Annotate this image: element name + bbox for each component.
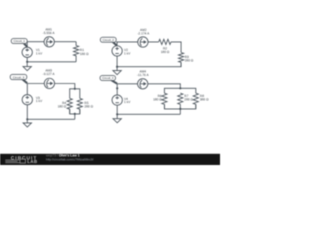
- wire c3 top rail: [27, 84, 75, 89]
- svg-text:180 Ω: 180 Ω: [161, 50, 170, 54]
- voltage source V3: [22, 95, 43, 105]
- svg-text:180 Ω: 180 Ω: [58, 105, 67, 109]
- junction c3 bottom mid node: [74, 113, 76, 115]
- wire c2 gnd stem: [116, 67, 118, 71]
- wire c1 V1 top lead: [26, 42, 28, 48]
- wire c3 V3 bottom lead: [26, 105, 28, 120]
- svg-text:180 Ω: 180 Ω: [153, 98, 162, 102]
- junction c4 top mid node: [179, 87, 181, 89]
- svg-text:Circuit_4: Circuit_4: [102, 76, 114, 80]
- wire c2 top rail right: [171, 42, 181, 53]
- wire c3 return: [27, 118, 75, 120]
- wire c3 V3 top lead: [26, 84, 28, 95]
- svg-text:Circuit_2: Circuit_2: [102, 38, 114, 42]
- svg-text:380 Ω: 380 Ω: [200, 98, 209, 102]
- resistor R5: [77, 98, 93, 114]
- resistor R6: [153, 93, 167, 109]
- ground (c4): [113, 119, 121, 123]
- resistor R2: [159, 39, 171, 54]
- junction c4 bottom mid node: [179, 108, 181, 110]
- ground (c1): [23, 67, 31, 71]
- junction c4 lead joint: [116, 87, 118, 89]
- svg-text:-9.127 A: -9.127 A: [43, 72, 56, 76]
- junction c3 bottom node: [26, 118, 28, 120]
- wire c1 bottom rail: [27, 61, 76, 63]
- ammeter AM3: [43, 69, 56, 89]
- junction c2 bottom node: [116, 66, 118, 68]
- resistor R3: [179, 53, 194, 67]
- wire c4 return: [117, 113, 180, 115]
- net flag Circuit_2: [100, 37, 117, 46]
- svg-text:-11.76 A: -11.76 A: [137, 73, 150, 77]
- wire c4 V4 bottom lead: [116, 105, 118, 114]
- net flag Circuit_1: [11, 39, 27, 48]
- ammeter AM2: [137, 28, 150, 47]
- ground (c3): [23, 123, 31, 127]
- svg-text:1 kV: 1 kV: [36, 99, 43, 103]
- wire c2 top rail left: [116, 41, 158, 43]
- resistor R8: [193, 93, 209, 109]
- wire c2 V2 top lead: [116, 42, 118, 46]
- wire c4 bottom branch rail: [164, 104, 195, 109]
- wire c2 bottom rail: [117, 62, 181, 66]
- svg-text:1 kV: 1 kV: [124, 100, 131, 104]
- wire c3 gnd stem: [26, 119, 28, 123]
- ground (c2): [113, 71, 121, 75]
- wire c3 drop: [74, 114, 76, 119]
- wire c1 V1 bottom lead: [26, 57, 28, 61]
- wire c4 drop: [179, 109, 181, 114]
- resistor R4: [58, 98, 73, 114]
- wire c3 bottom rail: [70, 109, 80, 114]
- voltage source V4: [112, 95, 131, 105]
- ammeter AM1: [43, 28, 56, 47]
- svg-text:1 kV: 1 kV: [36, 52, 43, 56]
- wire c3 branch top rail: [70, 89, 80, 99]
- voltage source V1: [22, 47, 43, 57]
- wire c2 V2 bottom lead: [116, 56, 118, 67]
- svg-text:-5.556 A: -5.556 A: [43, 31, 56, 35]
- ammeter AM4: [137, 70, 150, 89]
- wire c4 V4 top lead: [116, 84, 118, 95]
- wire c4 gnd stem: [116, 114, 118, 118]
- junction c4 bottom node: [116, 113, 118, 115]
- resistor R1: [74, 42, 90, 62]
- svg-text:280 Ω: 280 Ω: [185, 59, 194, 63]
- svg-text:180 Ω: 180 Ω: [80, 52, 89, 56]
- footer bar: [0, 154, 220, 165]
- voltage source V2: [112, 46, 131, 56]
- svg-text:280 Ω: 280 Ω: [84, 105, 93, 109]
- junction c1 bottom node: [26, 61, 28, 63]
- net flag Circuit_4: [100, 76, 117, 84]
- resistor R7: [178, 93, 194, 109]
- svg-text:1 kV: 1 kV: [124, 51, 131, 55]
- svg-text:LAB: LAB: [27, 159, 38, 164]
- wire c4 top rail: [117, 84, 180, 89]
- svg-text:Circuit_1: Circuit_1: [13, 39, 25, 43]
- CircuitLab logo: [5, 156, 38, 164]
- wire c4 branch top rail: [164, 88, 195, 93]
- svg-text:http://circuitlab.com/c/7tt6za: http://circuitlab.com/c/7tt6za66ks2t/: [46, 157, 94, 161]
- svg-text:-2.174 A: -2.174 A: [137, 31, 150, 35]
- footer title text: [46, 154, 94, 162]
- junction c3 top mid node: [74, 88, 76, 90]
- wire c1 gnd stem: [26, 62, 28, 67]
- wire c1 top rail: [27, 41, 76, 43]
- svg-text:Circuit_3: Circuit_3: [13, 75, 25, 79]
- net flag Circuit_3: [10, 74, 27, 83]
